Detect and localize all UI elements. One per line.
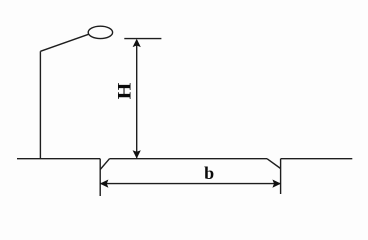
svg-text:H: H	[115, 82, 136, 99]
svg-text:b: b	[204, 163, 214, 183]
